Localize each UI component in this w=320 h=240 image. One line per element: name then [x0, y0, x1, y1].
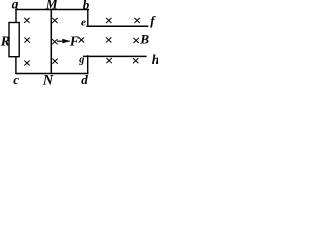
- field cross col1 row1: [24, 18, 29, 23]
- rod MN: [50, 9, 52, 74]
- svg-text:f: f: [150, 13, 156, 28]
- svg-text:d: d: [81, 72, 88, 86]
- svg-text:c: c: [13, 72, 19, 86]
- rail g-h: [83, 55, 147, 57]
- field cross col1 row3: [24, 60, 29, 65]
- svg-text:B: B: [139, 32, 149, 47]
- rail e-f: [86, 25, 148, 27]
- svg-text:F: F: [69, 33, 79, 48]
- field cross col4 row2: [106, 37, 111, 42]
- svg-text:g: g: [78, 54, 84, 65]
- field cross col5 row3: [133, 58, 138, 63]
- wire: d up to g: [87, 55, 89, 74]
- field cross col4 row1: [106, 18, 111, 23]
- wire: left side lower (resistor bottom to c): [15, 57, 17, 74]
- svg-text:a: a: [12, 0, 19, 12]
- field cross col5 row2: [133, 38, 138, 43]
- force arrow F head: [62, 39, 70, 44]
- field cross col5 row1: [134, 18, 139, 23]
- svg-text:N: N: [42, 73, 54, 86]
- field cross col3 row2: [79, 37, 84, 42]
- wire: bottom rail c-d of loop: [15, 73, 88, 75]
- field cross col4 row3: [106, 58, 111, 63]
- field cross col2 row1: [52, 18, 57, 23]
- wire: top rail a-b of loop: [15, 9, 89, 11]
- resistor R box: [9, 23, 19, 57]
- field cross col2 row3: [52, 59, 57, 64]
- svg-text:R: R: [0, 35, 10, 50]
- svg-text:M: M: [45, 0, 59, 12]
- svg-text:e: e: [81, 16, 86, 28]
- force arrow F shaft: [57, 40, 70, 42]
- wire: b down to e: [87, 9, 89, 26]
- svg-text:b: b: [83, 0, 90, 12]
- svg-text:h: h: [152, 52, 158, 67]
- wire: left side upper (a to resistor top): [15, 9, 17, 23]
- field cross col2 row2 (at rod, under arrow): [52, 39, 57, 44]
- field cross col1 row2: [24, 38, 29, 43]
